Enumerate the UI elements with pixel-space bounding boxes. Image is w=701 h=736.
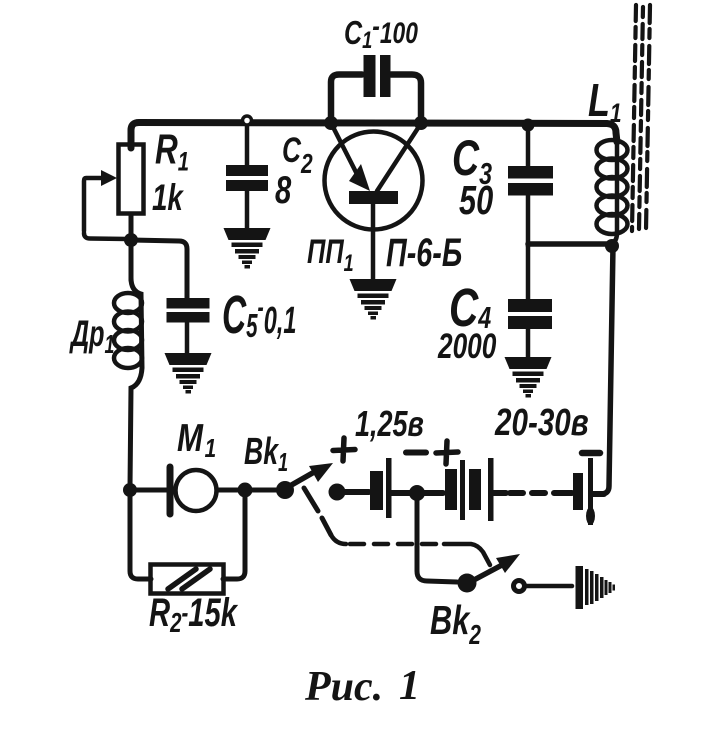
svg-text:Bk1: Bk1 bbox=[244, 429, 288, 477]
svg-text:50: 50 bbox=[459, 177, 493, 223]
svg-text:R2-15k: R2-15k bbox=[149, 591, 238, 639]
svg-text:C5-0,1: C5-0,1 bbox=[222, 284, 296, 345]
svg-text:L1: L1 bbox=[588, 75, 622, 129]
svg-text:C1-100: C1-100 bbox=[344, 9, 418, 54]
svg-text:1: 1 bbox=[399, 663, 420, 709]
svg-text:1k: 1k bbox=[152, 176, 184, 218]
svg-text:Др1: Др1 bbox=[69, 312, 115, 359]
svg-text:8: 8 bbox=[275, 169, 292, 212]
svg-text:R1: R1 bbox=[155, 125, 189, 177]
svg-text:ПП1: ПП1 bbox=[307, 234, 354, 277]
svg-text:1,25в: 1,25в bbox=[355, 403, 424, 444]
svg-text:2000: 2000 bbox=[437, 326, 496, 366]
svg-text:П-6-Б: П-6-Б bbox=[386, 230, 462, 275]
svg-text:M1: M1 bbox=[177, 417, 216, 463]
svg-text:Bk2: Bk2 bbox=[430, 597, 481, 651]
svg-text:Рис.: Рис. bbox=[304, 664, 383, 710]
svg-text:20-30в: 20-30в bbox=[494, 402, 589, 444]
